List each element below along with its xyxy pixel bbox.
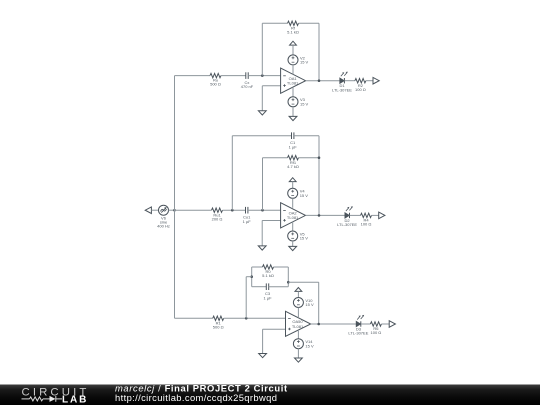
wire stage1 V+ to op-amp: [292, 65, 294, 74]
output terminal stage2: [379, 212, 385, 219]
svg-text:15 V: 15 V: [300, 193, 309, 198]
input terminal T1: [145, 207, 151, 214]
LED D3 LTL-307EE: [348, 315, 368, 336]
wire stage1 output: [306, 80, 340, 82]
wire stage3 box top right: [274, 266, 289, 268]
capacitor Cu1 1 uF: [243, 207, 252, 224]
ground stage2 V-: [289, 246, 297, 250]
svg-text:http://circuitlab.com/ccqdx25q: http://circuitlab.com/ccqdx25qrbwqd: [115, 392, 277, 403]
svg-text:TL081: TL081: [287, 215, 299, 220]
wire C1 feedback top left: [232, 135, 291, 137]
resistor Ru1 200: [212, 208, 223, 221]
wire stage3 op-amp to V-: [297, 331, 299, 339]
resistor Rf1 4.7 k: [287, 156, 299, 169]
op-amp OA2 TL081: [281, 203, 306, 228]
svg-text:15 V: 15 V: [300, 236, 309, 241]
svg-text:500 Ω: 500 Ω: [210, 82, 221, 87]
ground stage1 V-: [289, 116, 297, 120]
wire Rf1 feedback left: [263, 157, 288, 159]
wire stage3 tap horizontal: [246, 276, 252, 278]
svg-text:4.7 kΩ: 4.7 kΩ: [287, 164, 299, 169]
node stage2 output junction: [318, 214, 321, 217]
wire stage2 op-amp to V-: [292, 222, 294, 231]
resistor R4 100: [361, 213, 372, 226]
svg-text:15 V: 15 V: [300, 60, 309, 65]
wire stage3 plus to ground: [262, 329, 264, 353]
wire stage1 op-amp to V-: [292, 87, 294, 97]
wire stage1 feedback right vertical: [318, 23, 320, 80]
svg-text:1 µF: 1 µF: [289, 144, 298, 149]
wire stage3 box right vertical: [287, 267, 289, 287]
ground stage3 V-: [295, 358, 303, 362]
resistor R1 500: [213, 316, 224, 329]
op-amp OA50 TL081: [286, 311, 311, 336]
wire stage1 LED to R2: [345, 80, 355, 82]
resistor Rf 5.1 k: [287, 21, 299, 34]
op-amp OA1 TL081: [281, 68, 306, 93]
wire stage1 feedback top right: [299, 22, 320, 24]
svg-text:400 Hz: 400 Hz: [157, 224, 170, 229]
wire stage2 feedback right vertical: [318, 136, 320, 216]
wire stage3 feedback to output horizontal: [288, 281, 318, 283]
wire Rf1 feedback left vertical: [262, 158, 264, 211]
wire stage2 output: [306, 214, 345, 216]
wire stage3 V+ stem: [297, 291, 299, 297]
wire C1 feedback left vertical: [231, 136, 233, 211]
wire stage1 feedback left vertical: [261, 23, 263, 75]
voltage source V5 15 V: [288, 231, 309, 241]
svg-text:500 Ω: 500 Ω: [213, 324, 224, 329]
wire stage3 V+ to op-amp: [297, 308, 299, 318]
svg-text:LTL-307EE: LTL-307EE: [348, 331, 368, 336]
wire stage2 input b: [223, 209, 246, 211]
ground stage3 non-inverting: [259, 354, 267, 358]
svg-text:100 Ω: 100 Ω: [361, 222, 372, 227]
wire stage3 V- to ground: [297, 349, 299, 358]
resistor Ru 500: [210, 73, 221, 86]
wire stage2 LED to R4: [350, 214, 361, 216]
wire stage1 plus input: [262, 85, 280, 87]
voltage source V10 15 V: [293, 298, 314, 308]
wire stage3 LED to R6: [361, 323, 370, 325]
svg-text:15 V: 15 V: [305, 302, 314, 307]
wire terminal to source: [151, 209, 158, 211]
wire stage3 R6 to terminal: [381, 323, 389, 325]
svg-text:TL081: TL081: [292, 324, 304, 329]
wire stage3 box top left: [252, 266, 263, 268]
resistor R0 5.1 k: [262, 265, 274, 278]
svg-text:1 µF: 1 µF: [243, 219, 252, 224]
voltage source V2 15 V: [288, 55, 309, 65]
wire stage1 feedback top left: [262, 22, 287, 24]
wire stage3 input a: [175, 317, 213, 319]
wire stage2 V+ stem: [292, 182, 294, 189]
svg-text:15 V: 15 V: [300, 101, 309, 106]
capacitor C3 1 uF feedback: [263, 283, 272, 300]
voltage source V14 15 V: [293, 339, 314, 349]
ground stage1 non-inverting: [258, 111, 266, 115]
wire stage1 V+ stem: [292, 45, 294, 55]
node stage3 feedback tap: [245, 317, 248, 320]
wire stage1 R2 to terminal: [366, 80, 373, 82]
wire stage3 box left vertical: [251, 267, 253, 287]
wire stage2 plus to ground: [261, 221, 263, 246]
node trunk-mid junction: [173, 209, 176, 212]
LED D1 LTL-307EE: [332, 72, 352, 93]
voltage source V4 15 V: [288, 188, 309, 198]
ground stage2 non-inverting: [258, 246, 266, 250]
svg-text:LTL-307EE: LTL-307EE: [332, 87, 352, 92]
svg-text:5.1 kΩ: 5.1 kΩ: [262, 273, 274, 278]
svg-text:200 Ω: 200 Ω: [212, 216, 223, 221]
wire trunk vertical: [174, 76, 176, 319]
voltage source V6 sine 400 Hz: [157, 205, 170, 228]
node Rf1 meets C1 vertical: [318, 156, 321, 159]
wire stage1 input b: [221, 75, 246, 77]
svg-text:LTL-307EE: LTL-307EE: [337, 222, 357, 227]
wire stage1 V- to ground: [292, 107, 294, 117]
node stage3 box left tap: [250, 275, 253, 278]
logo schematic glyph wire: [22, 396, 63, 402]
wire Rf1 feedback right: [299, 157, 320, 159]
node stage2 C1 tap: [231, 209, 234, 212]
capacitor Cx 470 nF: [241, 72, 254, 89]
wire stage2 V- to ground: [292, 241, 294, 246]
resistor R6 100: [370, 322, 381, 335]
voltage source V3 15 V: [288, 97, 309, 107]
wire stage3 feedback right vertical: [318, 282, 320, 324]
LED D2 LTL-307EE: [337, 206, 357, 227]
wire stage3 output: [311, 323, 357, 325]
node stage2 inverting input: [261, 209, 264, 212]
resistor R2 100: [355, 79, 366, 92]
svg-text:5.1 kΩ: 5.1 kΩ: [287, 29, 299, 34]
wire C1 feedback top right: [294, 135, 319, 137]
wire stage3 tap vertical: [245, 277, 247, 319]
wire stage1 plus to ground: [261, 86, 263, 111]
node stage3 box right tap: [287, 281, 290, 284]
wire stage3 box bottom right: [269, 286, 289, 288]
power arrow stage3 V+: [295, 288, 302, 292]
svg-text:470 nF: 470 nF: [241, 84, 254, 89]
wire trunk corner: [174, 317, 176, 319]
output terminal stage3: [389, 321, 395, 328]
wire stage3 box bottom left: [252, 286, 267, 288]
wire stage2 to op-amp minus: [248, 209, 281, 211]
svg-text:LAB: LAB: [62, 395, 88, 405]
power arrow stage2 V+: [289, 178, 296, 182]
node stage3 output junction: [317, 323, 320, 326]
wire stage2 plus input: [262, 220, 280, 222]
logo diode glyph: [50, 396, 56, 402]
svg-text:100 Ω: 100 Ω: [355, 87, 366, 92]
svg-text:15 V: 15 V: [305, 343, 314, 348]
node stage1 output junction: [318, 79, 321, 82]
wire stage3 to op-amp minus: [224, 317, 286, 319]
wire stage2 input a: [175, 209, 212, 211]
power arrow stage1 V+: [290, 41, 297, 45]
wire stage1 input a: [175, 75, 211, 77]
svg-text:100 Ω: 100 Ω: [371, 330, 382, 335]
wire stage3 plus input: [263, 328, 286, 330]
wire stage2 V+ to op-amp: [292, 198, 294, 208]
svg-text:TL081: TL081: [287, 81, 299, 86]
svg-text:1 µF: 1 µF: [263, 295, 272, 300]
output terminal stage1: [373, 77, 379, 84]
wire stage1 to op-amp minus: [248, 75, 280, 77]
wire source to trunk: [169, 209, 175, 211]
wire stage2 R4 to terminal: [372, 214, 379, 216]
node stage1 inverting input: [261, 74, 264, 77]
capacitor C1 1 uF feedback: [289, 132, 298, 149]
